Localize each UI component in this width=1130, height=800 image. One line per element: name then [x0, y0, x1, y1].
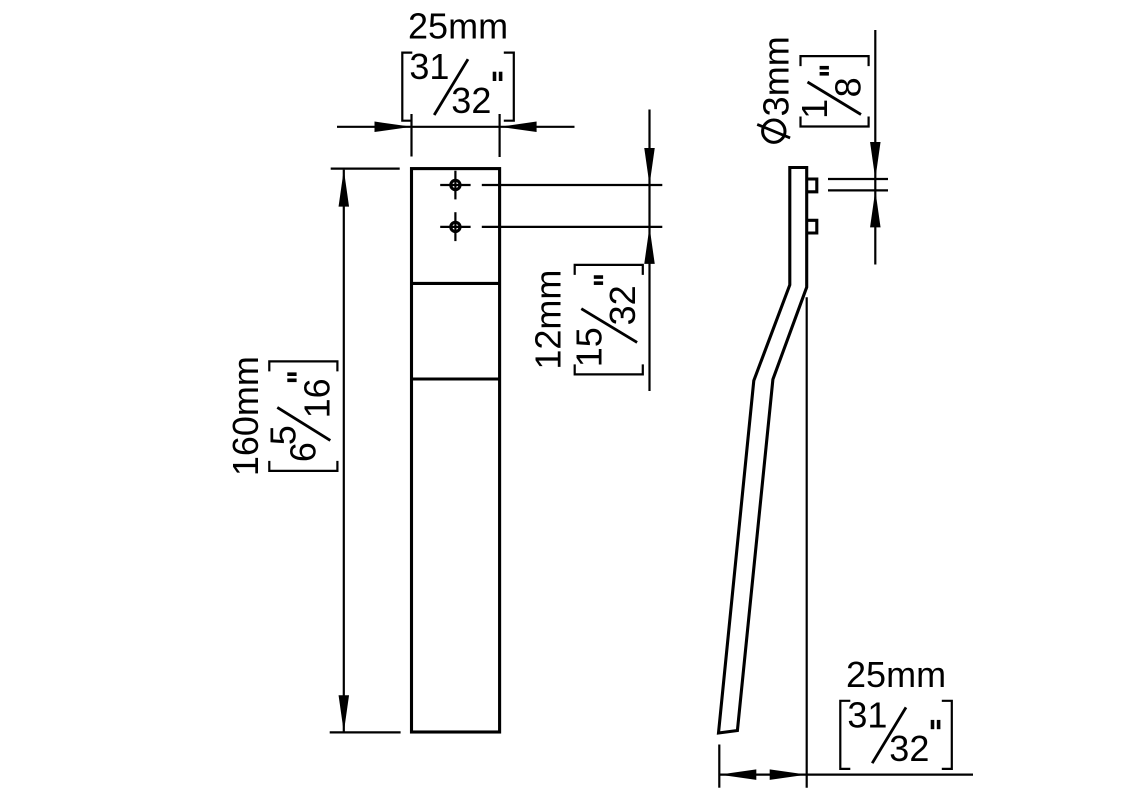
svg-text:8: 8 [828, 77, 869, 97]
svg-text:25mm: 25mm [846, 654, 946, 695]
svg-text:1: 1 [794, 99, 835, 119]
svg-text:32: 32 [602, 285, 643, 325]
svg-text:160mm: 160mm [225, 356, 266, 476]
svg-text:32: 32 [451, 80, 491, 121]
svg-text:32: 32 [889, 728, 929, 769]
svg-text:31: 31 [409, 46, 449, 87]
svg-text:5: 5 [262, 425, 303, 445]
svg-text:16: 16 [297, 378, 338, 418]
svg-text:12mm: 12mm [528, 270, 569, 370]
svg-text:3mm: 3mm [756, 36, 797, 116]
svg-text:25mm: 25mm [408, 6, 508, 47]
svg-text:15: 15 [568, 327, 609, 367]
svg-text:31: 31 [847, 694, 887, 735]
